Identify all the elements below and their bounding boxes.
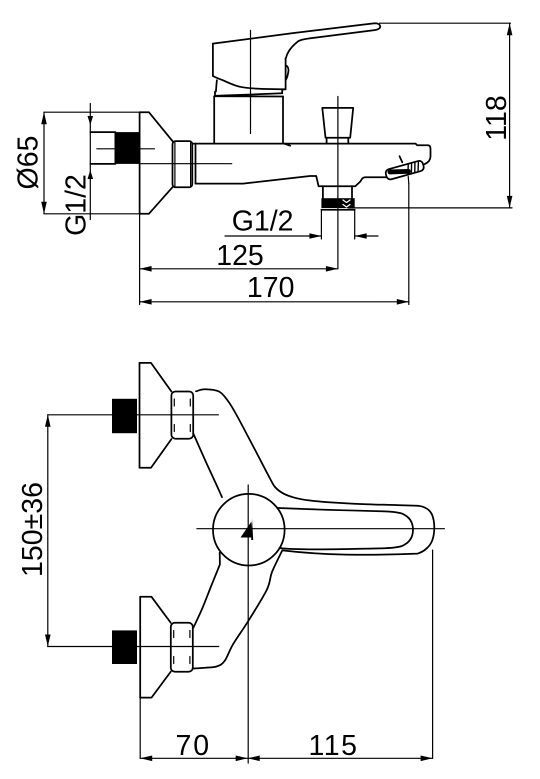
body lower arm [193,550,282,668]
center line: handle horizontal axis [197,528,445,530]
svg-text:70: 70 [175,730,211,762]
lower connection axis [48,646,219,648]
upper wall flange cone [140,363,172,468]
cartridge housing [214,96,290,146]
dimension 125 [140,214,338,305]
dimension 170 [140,184,409,305]
svg-text:G1/2: G1/2 [232,206,294,238]
center line: wall connection axis [97,148,155,150]
body upper arm [193,389,417,506]
handle logo mark [241,519,254,541]
dimension 118 [348,23,512,208]
dimension G1/2 (wall) label [61,174,93,236]
svg-text:125: 125 [216,240,264,272]
handle outer outline (plan) [282,506,434,555]
wall pipe [90,132,115,164]
svg-text:170: 170 [247,272,295,304]
svg-text:118: 118 [481,95,513,140]
dimension 115 [248,550,433,761]
center line: barrel axis [141,163,232,165]
shower outlet nut (black) [321,198,354,210]
svg-text:115: 115 [309,730,359,762]
center line: dome vertical axis [247,485,249,763]
dimension 150±36 [45,415,51,647]
svg-text:G1/2: G1/2 [61,174,93,236]
upper hex nut (black) [112,399,137,433]
spout tip pointer [407,176,410,183]
svg-text:Ø65: Ø65 [13,136,45,190]
handle skirt [215,80,286,96]
dimension G1/2 (wall thread) [88,104,94,220]
dimension G1/2 (shower outlet) [225,210,378,239]
lower hex nut (black) [112,630,137,664]
dimension Ø65 label [13,136,45,190]
lower connection nut [171,623,193,672]
center line: diverter/shower axis [337,97,339,269]
dome (cartridge cover, plan) [213,494,285,566]
diverter knob [322,108,353,143]
body barrel [192,144,430,187]
spout tip knurled grip [385,160,425,180]
wall flange cone [140,112,173,214]
spout tip tick [400,156,403,162]
center line: cartridge axis [250,30,252,133]
dimension 150±36 label [17,482,49,577]
thread G1/2 (black) [115,132,140,164]
upper connection axis [48,414,219,416]
shower outlet boss [323,186,352,198]
dimension Ø65 [41,112,139,214]
lower wall flange cone [140,597,171,698]
dimension 70 [140,698,248,762]
connection nut [173,141,193,187]
upper connection nut [171,392,193,439]
dimension 118 label [481,95,513,140]
svg-text:150±36: 150±36 [17,482,49,577]
lever handle [213,23,380,89]
handle inner face (plan) [277,508,413,549]
